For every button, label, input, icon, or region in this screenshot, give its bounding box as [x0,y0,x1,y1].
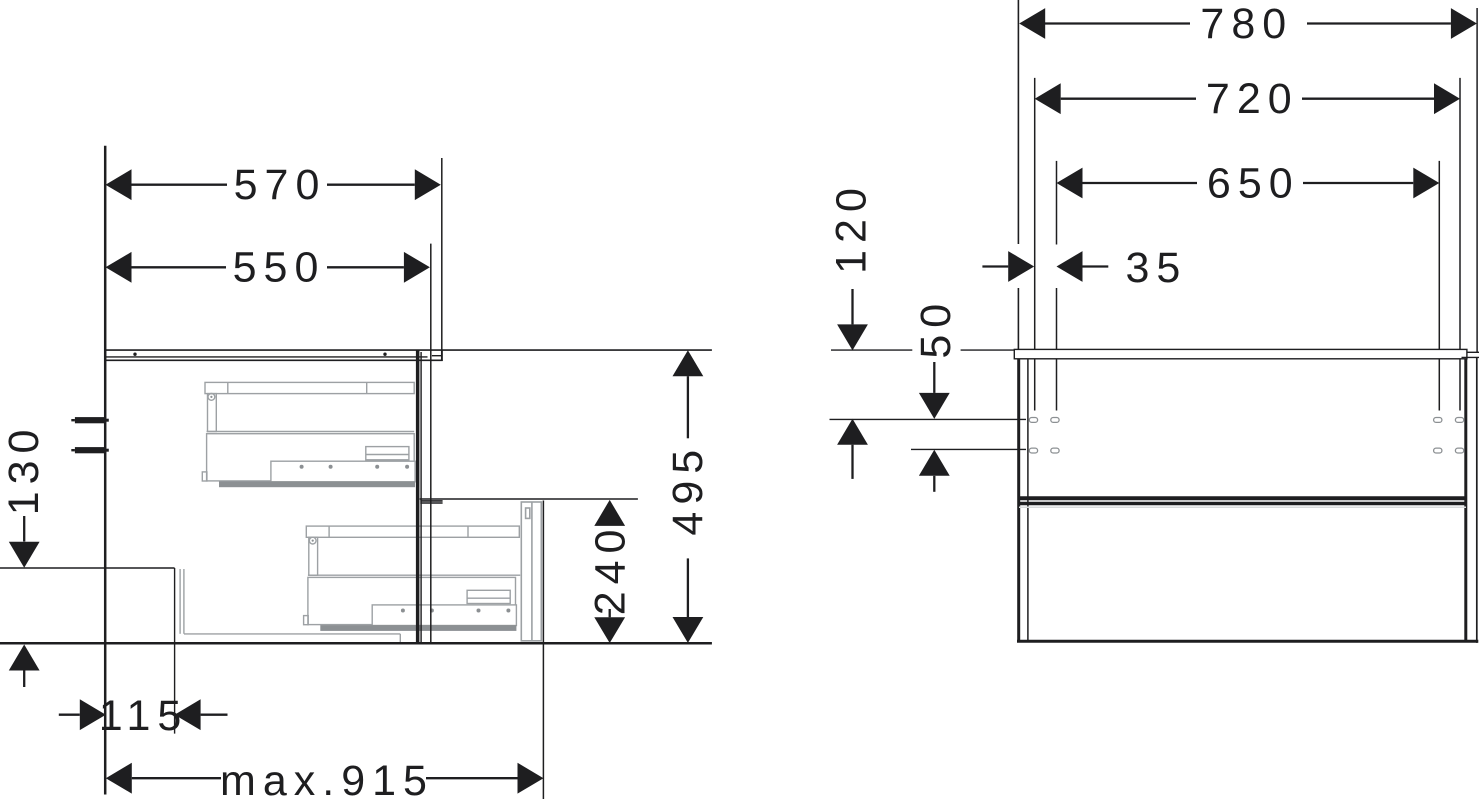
720 left extension [1034,78,1036,411]
svg-text:115: 115 [99,692,189,740]
top slab [104,350,712,360]
recess inner lines (gray) [180,569,400,642]
lower drawer slide assembly (gray, translated copy) [304,526,521,631]
240 reference line [420,498,638,500]
drill hole marks [1029,418,1463,454]
svg-text:35: 35 [1125,244,1187,292]
recess step line [0,567,175,569]
drawer gap lines [1019,496,1466,500]
carcass right heavy edge [1464,359,1467,642]
wall screw top [71,417,108,423]
cabinet bottom line [0,642,712,645]
carcass left heavy edge [1017,359,1020,642]
top slab (front view) [1014,349,1467,358]
far right side line [1476,357,1478,643]
upper drawer slide assembly (gray) [202,382,415,487]
svg-text:650: 650 [1207,160,1300,208]
550 extension + carcass front face line [430,244,432,643]
svg-text:240: 240 [587,523,635,616]
svg-text:120: 120 [827,181,875,274]
max.915 right extension [542,501,544,800]
svg-text:780: 780 [1200,0,1293,48]
slab screw dots [133,353,136,356]
svg-text:550: 550 [233,243,326,291]
inner carcass line [1027,359,1029,642]
svg-text:495: 495 [664,443,712,536]
svg-text:570: 570 [234,161,327,209]
front joint bars [420,501,442,503]
carcass left extension line (with gap at 35-dim) [1017,0,1019,244]
bottom heavy line [1017,640,1478,643]
svg-text:max.915: max.915 [220,757,434,805]
svg-text:130: 130 [0,423,48,516]
drawer front heavy band [416,350,420,643]
wall screw bottom [71,447,108,453]
svg-text:720: 720 [1206,75,1299,123]
650 right extension [1438,161,1440,411]
lower drawer front panel pulled out (gray) [521,502,541,641]
570 right extension line / slab right edge [441,158,443,350]
cabinet left wall / extension line [104,146,107,795]
reference lines for 120/50 [831,349,912,351]
recess vertical / 115 extension [174,568,176,734]
720 right extension [1459,78,1461,411]
780 right extension [1476,8,1478,352]
650 left extension (gap at 35-dim) [1056,161,1058,245]
svg-text:50: 50 [912,297,960,359]
